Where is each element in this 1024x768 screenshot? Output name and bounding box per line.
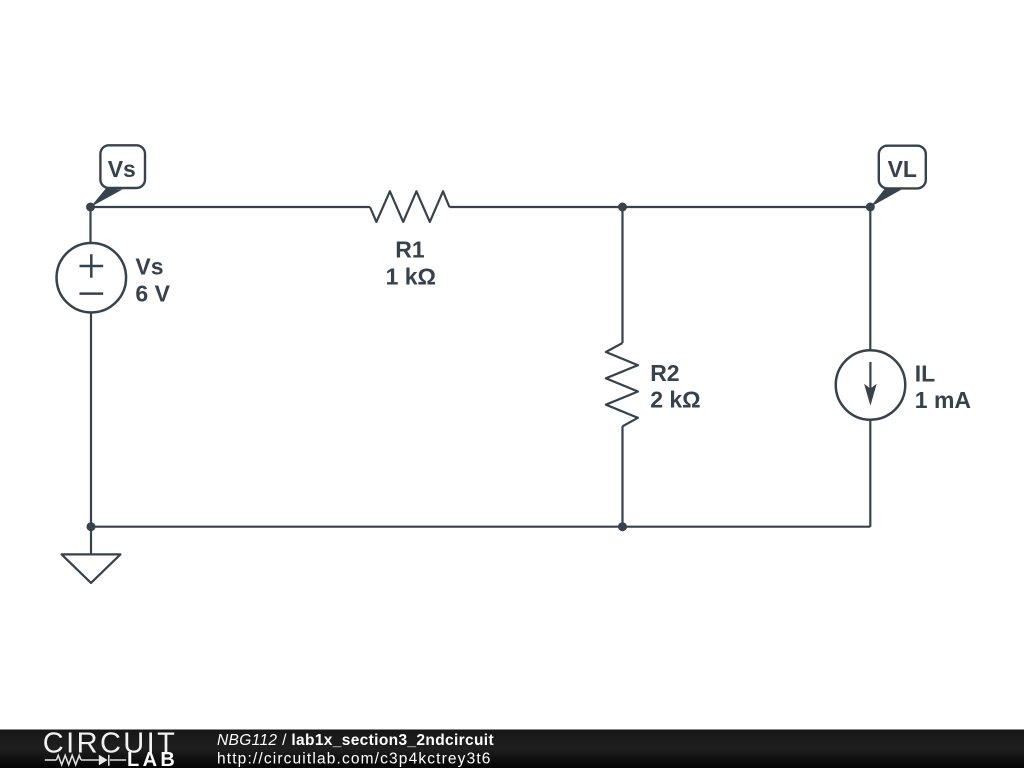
svg-text:LAB: LAB — [127, 749, 178, 768]
svg-text:IL: IL — [915, 361, 935, 387]
svg-text:Vs: Vs — [108, 156, 136, 182]
svg-text:2 kΩ: 2 kΩ — [650, 386, 700, 412]
svg-text:R1: R1 — [395, 237, 425, 263]
svg-text:Vs: Vs — [135, 254, 163, 280]
svg-text:VL: VL — [888, 156, 917, 182]
svg-text:http://circuitlab.com/c3p4kctr: http://circuitlab.com/c3p4kctrey3t6 — [217, 750, 492, 767]
svg-text:NBG112 / lab1x_section3_2ndcir: NBG112 / lab1x_section3_2ndcircuit — [217, 732, 494, 749]
svg-text:1 mA: 1 mA — [915, 387, 971, 413]
svg-text:R2: R2 — [650, 360, 679, 386]
svg-text:6 V: 6 V — [135, 281, 170, 307]
svg-text:1 kΩ: 1 kΩ — [386, 264, 436, 290]
